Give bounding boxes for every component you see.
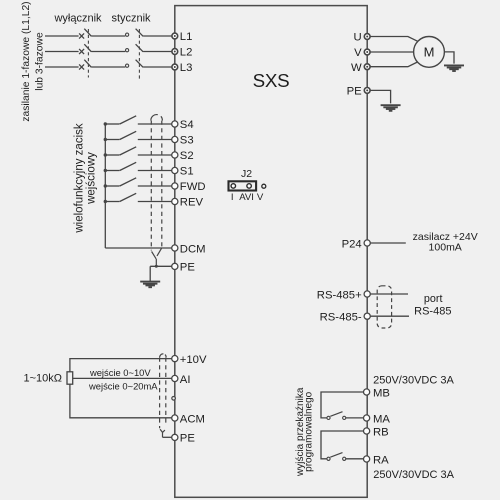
wire bus to switch S2 [105,154,119,156]
svg-text:U: U [354,32,362,44]
terminal FWD [172,183,178,189]
terminal RS-485+ [364,291,370,297]
breaker QF linkage (dashed) [87,29,89,78]
svg-text:stycznik: stycznik [111,12,151,24]
breaker QF pole 3 fixed contact (x) [79,64,84,69]
terminal DCM [172,245,178,251]
svg-text:S3: S3 [180,135,194,147]
svg-text:S1: S1 [180,166,194,178]
svg-text:AI: AI [180,374,191,386]
svg-text:J2: J2 [241,168,252,180]
cable shield left line (dashed) [150,121,152,251]
junction on DCM bus at S2 [104,153,107,156]
label V [354,47,362,59]
label L2 [180,47,193,59]
svg-text:MA: MA [373,413,390,425]
relay contact 1 blade [330,412,342,417]
terminal L2 [172,49,178,55]
label zasilacz +24V 100mA [413,231,478,253]
cable shield right line (dashed) [161,121,163,247]
svg-text:V: V [354,47,362,59]
breaker QF pole 2 fixed contact (x) [79,49,84,54]
label wylacznik (breaker) [53,12,102,24]
wire RS-485+ [371,293,409,295]
label wejscie 0~20mA [88,380,158,391]
terminal RA [364,456,370,462]
svg-text:RS-485+: RS-485+ [317,289,362,301]
analog shield drain hook [160,429,165,437]
svg-text:SXS: SXS [253,70,290,91]
wire pot wiper to AI [73,377,172,379]
wire PE to ground (output) [371,90,391,103]
switch S3 blade (open) [120,131,137,139]
terminal S2 [172,152,178,158]
terminal AI [172,375,178,381]
breaker QF pole 1 blade [84,29,91,37]
svg-text:AVI: AVI [239,192,254,203]
jumper J2 pin I [231,184,236,189]
wire switch to terminal S2 [138,154,172,156]
terminal PE (output) [364,88,370,94]
shield drain wire to PE [155,259,157,267]
contactor KM pole 3 blade [136,60,144,68]
jumper J2 pin AVI [247,184,252,189]
label I AVI V [231,192,264,203]
label S4 [180,119,194,131]
label RS-485- [320,312,362,324]
wire relay contact to MA [346,417,364,419]
label FWD [180,181,206,193]
junction on DCM bus at FWD [104,184,107,187]
svg-text:wejście 0~20mA: wejście 0~20mA [88,380,158,391]
label REV [180,197,204,209]
junction on DCM bus at S3 [104,138,107,141]
svg-text:wejście 0~10V: wejście 0~10V [89,367,151,378]
bus DCM common (vertical) [104,124,106,248]
svg-text:S4: S4 [180,119,194,131]
wire L2 between breaker and contactor [91,51,125,53]
svg-text:M: M [424,44,435,59]
svg-text:PE: PE [180,262,196,274]
label PE (control) [180,262,196,274]
label S3 [180,135,194,147]
wire MB to relay contact [321,392,364,418]
jumper J2 block [229,181,257,190]
label zasilanie (supply note) [21,1,46,121]
label L1 [180,31,193,43]
wire switch to terminal REV [138,201,172,203]
svg-text:wyłącznik: wyłącznik [53,12,102,24]
label P24 [342,238,362,250]
svg-text:lub 3-fazowe: lub 3-fazowe [34,32,45,91]
switch S2 blade (open) [120,147,137,155]
contactor KM pole 2 fixed contact [126,49,129,52]
wire pot bottom to ACM [70,384,172,418]
analog shield arc [160,354,166,358]
svg-text:wielofunkcyjny zacisk: wielofunkcyjny zacisk [74,123,86,234]
wire L3 between breaker and contactor [91,66,125,68]
switch FWD blade (open) [120,178,137,186]
wire RB to relay contact [321,431,364,459]
wire supply phase L3 segment 1 [45,66,79,68]
label 1~10kOhm [24,373,63,385]
wire pot top to +10V [70,359,172,372]
label W [351,62,362,74]
potentiometer R1 1~10k body [67,372,73,384]
label port RS-485 [414,293,451,318]
junction on DCM bus at REV [104,200,107,203]
svg-text:I: I [231,192,234,203]
junction shield drain on PE wire [155,265,158,268]
label ACM [180,413,205,425]
terminal RB [364,428,370,434]
unlabeled terminal (AO) [172,397,176,401]
label stycznik (contactor) [111,12,151,24]
terminal S3 [172,136,178,142]
terminal +10V [172,356,178,362]
breaker QF pole 2 blade [84,44,91,52]
wire DCM bus to terminal [105,247,172,249]
contactor KM pole 3 fixed contact [126,64,129,67]
label S2 [180,150,194,162]
label MA [373,413,390,425]
svg-text:RA: RA [373,454,389,466]
wire shield drain to PE (analog) [163,436,172,438]
terminal W [364,64,370,70]
wire RS-485- [371,315,410,317]
terminal L1 [172,33,178,39]
wire supply phase L2 segment 1 [45,51,79,53]
label wejscie 0~10V [89,367,151,378]
wire bus to switch REV [105,201,119,203]
terminal P24 [364,240,370,246]
inverter outline U1 (SXS) [175,6,367,498]
wire motor to ground [444,52,454,64]
label RA [373,454,389,466]
svg-text:RS-485-: RS-485- [320,312,362,324]
wire bus to switch FWD [105,185,119,187]
relay contact 1 fixed point left [327,416,330,419]
junction on DCM bus at S1 [104,169,107,172]
label +10V [180,354,207,366]
wire L2 to terminal [143,51,172,53]
contactor KM pole 2 blade [136,44,144,52]
analog shield left line (dashed) [159,358,161,429]
label AI [180,374,191,386]
relay contact 2 fixed point left [327,457,330,460]
wire L1 to terminal [143,35,172,37]
wire relay contact to RA [346,458,364,460]
wire switch to terminal S3 [138,139,172,141]
svg-text:port: port [424,293,443,305]
relay contact 2 fixed point right [343,457,346,460]
terminal S1 [172,167,178,173]
terminal REV [172,198,178,204]
switch S4 blade (open) [120,116,137,124]
label DCM [180,243,206,255]
svg-text:DCM: DCM [180,243,206,255]
terminal V [364,49,370,55]
wire bus to switch S4 [105,123,119,125]
svg-text:ACM: ACM [180,413,205,425]
svg-text:FWD: FWD [180,181,206,193]
terminal S4 [172,121,178,127]
ground symbol (output PE) [381,105,401,111]
terminal PE (control) [172,263,178,269]
svg-text:PE: PE [347,86,363,98]
label RS-485+ [317,289,362,301]
svg-text:250V/30VDC 3A: 250V/30VDC 3A [373,374,454,386]
label S1 [180,166,194,178]
terminal MB [364,389,370,395]
svg-text:L1: L1 [180,31,193,43]
svg-text:250V/30VDC 3A: 250V/30VDC 3A [373,469,454,481]
svg-text:RS-485: RS-485 [414,306,451,318]
svg-text:MB: MB [373,387,390,399]
svg-text:L3: L3 [180,62,193,74]
terminal MA [364,415,370,421]
terminal PE (analog) [172,434,178,440]
wire PE (control) [150,265,172,267]
svg-text:REV: REV [180,197,204,209]
label 250V/30VDC 3A (bottom) [373,469,454,481]
analog shield right line (dashed) [165,358,167,424]
svg-text:P24: P24 [342,238,362,250]
label SXS [253,70,290,91]
label L3 [180,62,193,74]
svg-text:+10V: +10V [180,354,207,366]
wire supply phase L1 segment 1 [45,35,79,37]
motor M [414,37,445,68]
relay contact 1 fixed point right [343,416,346,419]
label MB [373,387,390,399]
shield loop RS-485 (dashed) [377,286,391,328]
svg-text:RB: RB [373,426,389,438]
jumper J2 pin V [262,184,266,188]
wire switch to terminal S1 [138,170,172,172]
label RB [373,426,389,438]
contactor KM pole 1 fixed contact [126,33,129,36]
terminal RS-485- [364,313,370,319]
label PE (analog) [180,433,196,445]
wire bus to switch S3 [105,139,119,141]
label PE (output) [347,86,363,98]
svg-text:zasilanie 1-fazowe (L1,L2): zasilanie 1-fazowe (L1,L2) [21,1,32,121]
switch S1 blade (open) [120,162,137,170]
wire switch to terminal FWD [138,185,172,187]
breaker QF pole 1 fixed contact (x) [79,33,84,38]
ground symbol (control PE) [140,282,160,288]
wire L1 between breaker and contactor [91,35,125,37]
switch REV blade (open) [120,193,137,201]
wire P24 [371,242,406,244]
svg-text:wejściowy: wejściowy [86,152,98,205]
label 250V/30VDC 3A (top) [373,374,454,386]
label J2 [241,168,252,180]
svg-text:V: V [257,192,264,203]
svg-text:W: W [351,62,362,74]
svg-text:1~10kΩ: 1~10kΩ [24,373,63,385]
wire bus to switch S1 [105,170,119,172]
shield drain converge Y [152,248,162,258]
terminal ACM [172,415,178,421]
wire V to motor [370,51,413,53]
svg-text:S2: S2 [180,150,194,162]
contactor KM pole 1 blade [136,29,144,37]
wire U to motor [370,37,418,42]
terminal U [364,34,370,40]
svg-text:100mA: 100mA [429,242,462,254]
junction on DCM bus at S4 [104,122,107,125]
breaker QF pole 3 blade [84,60,91,68]
wire PE to ground [149,266,151,281]
wire W to motor [370,62,418,67]
ground symbol (motor) [444,65,464,71]
relay contact 2 blade [330,453,342,458]
cable shield arc (control) [151,115,162,121]
label wyjscia przekaznika programowalnego [295,387,315,477]
wire switch to terminal S4 [138,123,172,125]
svg-text:PE: PE [180,433,196,445]
svg-text:L2: L2 [180,47,193,59]
label U [354,32,362,44]
wire L3 to terminal [143,66,172,68]
contactor KM linkage (dashed) [138,29,140,79]
terminal L3 [172,64,178,70]
label wielofunkcyjny zacisk wejsciowy [74,123,98,234]
svg-text:programowalnego: programowalnego [304,391,315,471]
